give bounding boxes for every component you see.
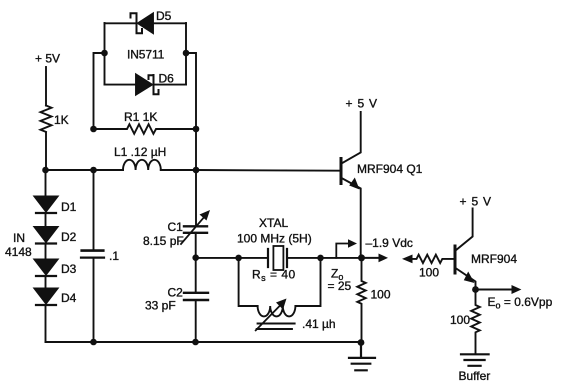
- resistor 100 (Q1 emitter): [357, 258, 365, 342]
- svg-text:100: 100: [419, 266, 439, 280]
- node: R1 left: [90, 126, 97, 133]
- svg-text:D3: D3: [61, 262, 77, 276]
- arrow: output to right: [362, 257, 381, 259]
- crystal XTAL: [268, 249, 287, 267]
- svg-text:Rs = 40: Rs = 40: [252, 268, 296, 284]
- wire: 1K to L1 node: [45, 133, 47, 170]
- svg-text:33 pF: 33 pF: [145, 299, 176, 313]
- svg-text:D2: D2: [61, 230, 77, 244]
- node: R1 right: [193, 126, 200, 133]
- svg-text:.1: .1: [109, 249, 119, 263]
- transistor Q1 MRF904: [340, 159, 343, 184]
- resistor 100 (Q2 base): [411, 255, 454, 263]
- wire: tank loop: [239, 258, 321, 306]
- diode D6 (Schottky): [105, 84, 137, 86]
- svg-text:100 MHz (5H): 100 MHz (5H): [237, 232, 312, 246]
- wire: crystal to emitter rail: [321, 257, 362, 259]
- ground (buffer): [461, 354, 489, 366]
- diode D5 (Schottky IN5711): [105, 22, 136, 24]
- svg-text:D4: D4: [61, 291, 77, 305]
- svg-text:XTAL: XTAL: [259, 216, 288, 230]
- svg-text:D5: D5: [156, 9, 172, 23]
- svg-text:IN5711: IN5711: [127, 48, 165, 62]
- wire: anti-parallel diode box left side: [104, 23, 106, 85]
- svg-text:D6: D6: [159, 72, 175, 86]
- svg-text:.41 µh: .41 µh: [302, 317, 336, 331]
- node: box right tap: [183, 50, 190, 57]
- svg-text:+ 5V: + 5V: [35, 52, 60, 66]
- node: box left tap: [101, 50, 108, 57]
- node: C2 at bottom rail: [192, 339, 199, 346]
- svg-text:100: 100: [450, 313, 470, 327]
- node: emitter net: [358, 254, 365, 261]
- wire: C1 to crystal node: [195, 233, 197, 258]
- wire: box tap to second rail: [94, 53, 105, 129]
- wire: second rail to bypass cap: [93, 170, 95, 250]
- svg-text:R1 1K: R1 1K: [124, 110, 157, 124]
- svg-text:= 25: = 25: [328, 279, 352, 293]
- resistor 1K (left rail): [41, 106, 52, 132]
- node: ground junction: [358, 339, 365, 346]
- wire: bypass cap to bottom rail: [93, 258, 95, 342]
- wire: C2 to bottom rail: [195, 300, 197, 342]
- node: L1 left: [90, 167, 97, 174]
- wire: D2 to D3: [45, 244, 47, 260]
- node: tank right: [317, 255, 324, 262]
- wire: +5V to 1K resistor: [45, 67, 47, 106]
- svg-text:D1: D1: [61, 200, 77, 214]
- wire: box right side: [185, 23, 187, 85]
- node: tank left: [235, 255, 242, 262]
- inductor .41 uh (variable): [258, 306, 296, 316]
- capacitor C2 33 pF: [195, 258, 197, 293]
- svg-text:Eo = 0.6Vpp: Eo = 0.6Vpp: [488, 295, 553, 311]
- svg-text:+ 5 V: + 5 V: [346, 97, 378, 111]
- diode D2: [35, 227, 58, 242]
- capacitor .1 (bypass): [82, 249, 104, 252]
- svg-text:8.15 pF: 8.15 pF: [143, 234, 184, 248]
- wire: D4 to bottom rail: [45, 305, 47, 342]
- inductor L1: [46, 169, 124, 171]
- node: bypass cap at bottom rail: [90, 339, 97, 346]
- svg-text:MRF904: MRF904: [471, 252, 517, 266]
- wire: bottom rail: [46, 341, 362, 343]
- wire: crystal net: [196, 257, 268, 259]
- node: left rail junction: [42, 167, 49, 174]
- svg-text:Buffer: Buffer: [459, 369, 491, 383]
- node: crystal left net: [192, 254, 199, 261]
- svg-text:100: 100: [371, 288, 391, 302]
- diode D4: [35, 289, 58, 304]
- svg-text:L1 .12 µH: L1 .12 µH: [114, 145, 166, 159]
- svg-text:1K: 1K: [54, 113, 69, 127]
- wire: node to D1: [45, 170, 47, 196]
- svg-text:+ 5 V: + 5 V: [460, 195, 492, 209]
- wire: base line L1 to Q1: [196, 169, 340, 172]
- ground (main): [349, 343, 375, 371]
- arrow: output Eo: [476, 289, 513, 291]
- transistor Q2 MRF904 (buffer): [454, 246, 457, 273]
- capacitor C1 (variable 8.15 pF): [184, 225, 207, 227]
- node: buffer output: [472, 286, 479, 293]
- svg-text:4148: 4148: [5, 245, 32, 259]
- arrow: Zo probe: [336, 244, 349, 258]
- wire: D3 to D4: [45, 276, 47, 289]
- diode D1: [35, 197, 58, 212]
- wire: D1 to D2: [45, 213, 47, 227]
- diode D3: [35, 260, 58, 275]
- resistor 100 (buffer emitter): [471, 290, 480, 355]
- arrow: coupling arrowhead (points left): [402, 255, 413, 264]
- svg-text:–1.9 Vdc: –1.9 Vdc: [366, 236, 413, 250]
- wire: box tap to third rail: [186, 53, 196, 129]
- svg-text:C1: C1: [168, 220, 184, 234]
- svg-text:IN: IN: [13, 231, 25, 245]
- node: L1 right: [193, 167, 200, 174]
- svg-text:C2: C2: [168, 286, 184, 300]
- wire: third rail to C1: [195, 129, 197, 226]
- resistor R1 1K: [94, 124, 197, 134]
- svg-text:MRF904 Q1: MRF904 Q1: [357, 162, 423, 176]
